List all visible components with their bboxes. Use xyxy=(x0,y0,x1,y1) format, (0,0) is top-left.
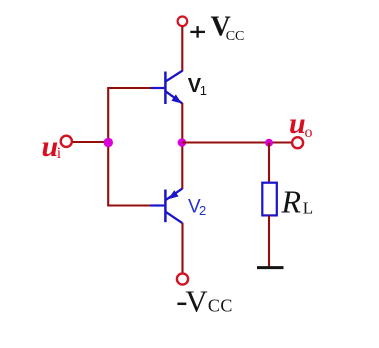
terminal -VCC xyxy=(177,273,188,284)
transistor V1 xyxy=(150,71,183,104)
label u_o xyxy=(289,107,313,141)
wire: output xyxy=(182,141,292,143)
ground xyxy=(257,266,284,269)
svg-text:CC: CC xyxy=(226,29,245,44)
node: output junction xyxy=(178,138,187,147)
wire: V2 collector to -VCC terminal xyxy=(181,223,183,274)
wire: output node to RL xyxy=(268,143,270,184)
svg-text:V: V xyxy=(185,284,208,319)
wire: input xyxy=(73,141,108,143)
terminal u_i xyxy=(61,136,72,147)
terminal u_o xyxy=(292,137,303,148)
svg-text:u: u xyxy=(289,107,306,140)
svg-text:i: i xyxy=(57,145,62,162)
wire: V2 base xyxy=(108,204,151,206)
wire: RL to ground xyxy=(268,215,270,266)
svg-text:2: 2 xyxy=(199,203,206,218)
label u_i xyxy=(42,130,62,163)
label V1 xyxy=(188,75,207,98)
label V2 xyxy=(188,197,206,218)
wire: emitter rail xyxy=(181,103,183,189)
svg-text:CC: CC xyxy=(208,295,233,315)
transistor V2 xyxy=(150,189,182,224)
terminal +VCC xyxy=(178,17,188,27)
svg-text:1: 1 xyxy=(200,83,207,98)
svg-text:u: u xyxy=(42,130,59,163)
svg-text:R: R xyxy=(281,183,302,219)
node: input junction xyxy=(104,138,113,147)
wire: V1 base xyxy=(108,87,151,89)
wire: left rail xyxy=(107,87,109,207)
label +VCC xyxy=(190,12,244,44)
label RL xyxy=(281,183,314,219)
svg-text:o: o xyxy=(305,124,313,141)
node: load junction xyxy=(265,139,273,147)
svg-text:L: L xyxy=(303,198,313,217)
label -VCC xyxy=(177,284,233,319)
resistor RL xyxy=(262,183,277,216)
wire: +VCC terminal to V1 collector xyxy=(181,26,183,71)
